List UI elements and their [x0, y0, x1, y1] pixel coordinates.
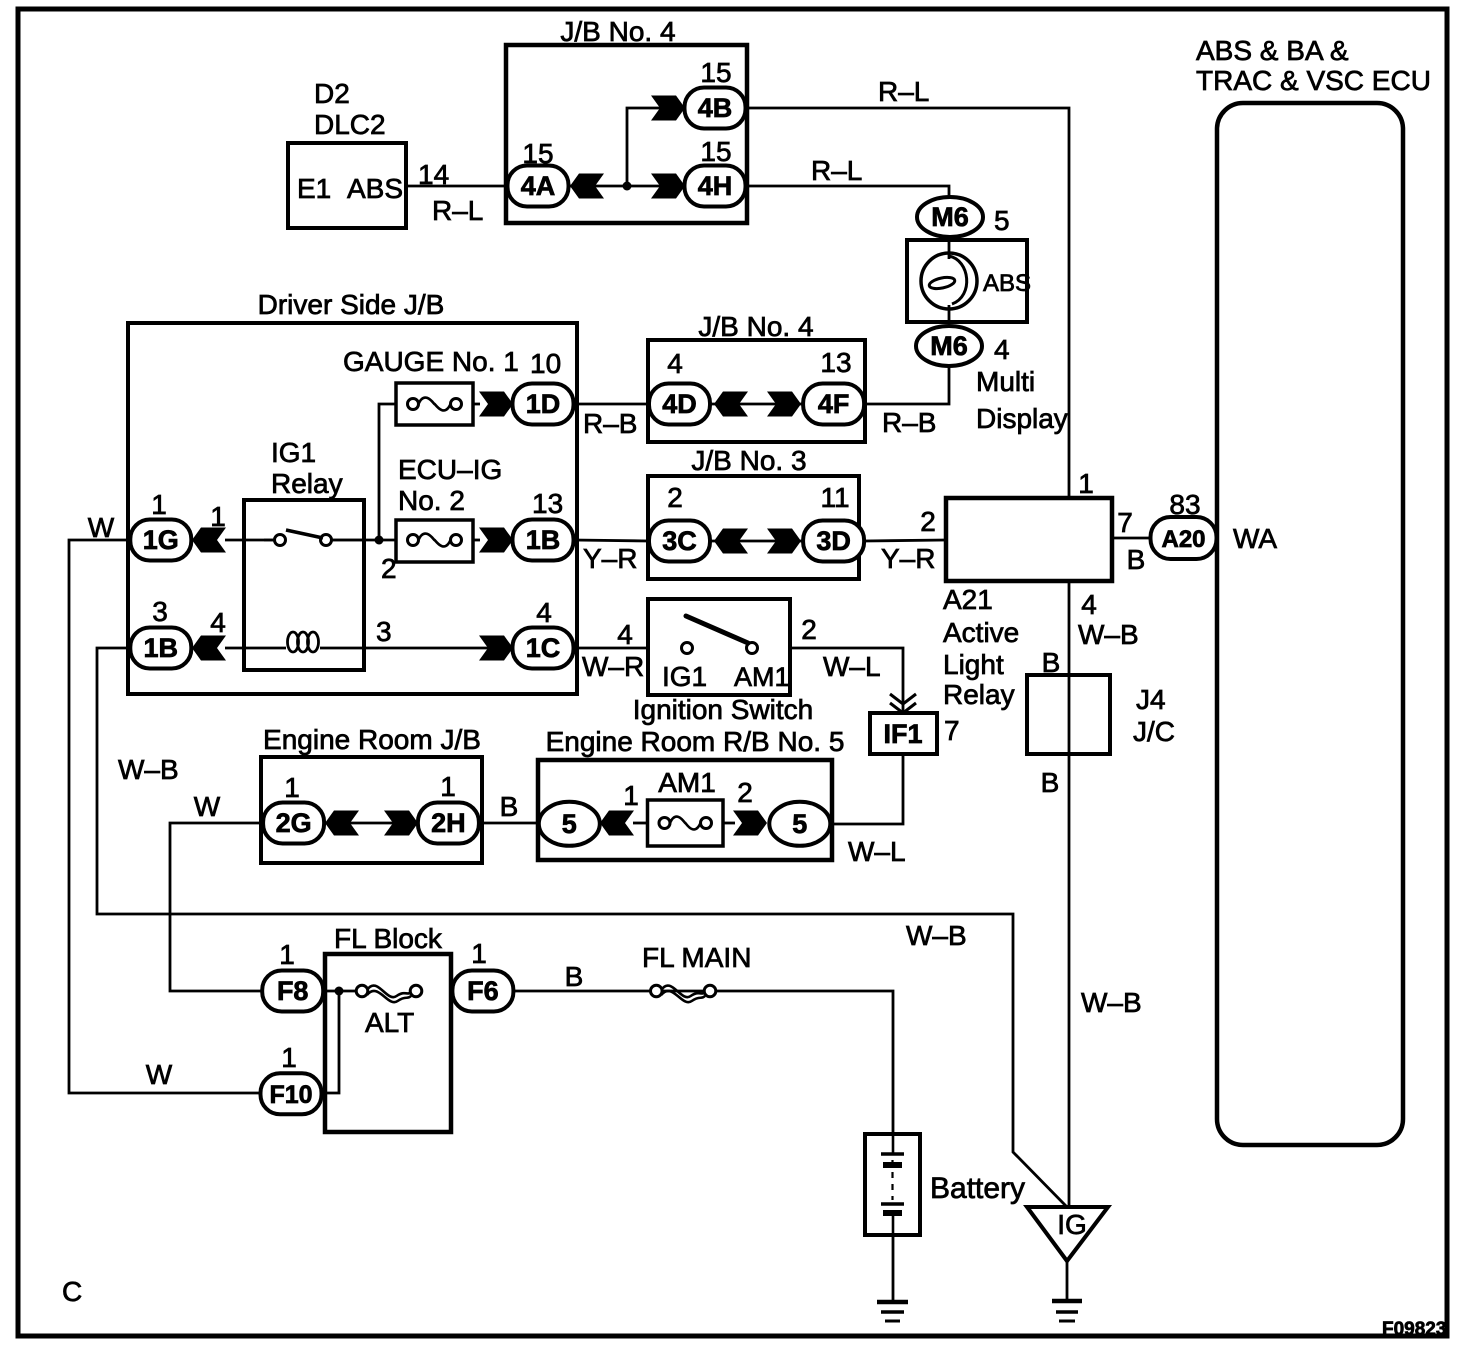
- ground point IG (triangle): [1027, 1207, 1108, 1261]
- wire inside Engine Room R/B No.5: [633, 822, 648, 825]
- svg-text:J/B No. 3: J/B No. 3: [691, 445, 806, 476]
- svg-text:W–B: W–B: [1081, 987, 1142, 1018]
- arrow out of 1G: [192, 528, 226, 553]
- svg-text:W: W: [146, 1059, 173, 1090]
- svg-text:Relay: Relay: [271, 468, 343, 499]
- svg-text:W: W: [88, 512, 115, 543]
- junction block Driver Side J/B: [128, 289, 577, 694]
- svg-text:E1: E1: [297, 173, 331, 204]
- component E1 ABS (DLC2 connector): [288, 143, 406, 228]
- svg-text:IG: IG: [1057, 1209, 1087, 1240]
- svg-text:4: 4: [994, 334, 1010, 365]
- fusible link arrows above IF1: [890, 694, 916, 713]
- connector 2G: [263, 803, 324, 844]
- arrow into 4F: [767, 392, 801, 417]
- svg-text:2: 2: [920, 506, 936, 537]
- svg-text:R–L: R–L: [432, 195, 483, 226]
- wire IF1 to connector 5 (W-L): [830, 754, 903, 824]
- svg-text:1B: 1B: [144, 633, 179, 663]
- connector 5 (right): [769, 802, 830, 846]
- arrow out of 4D: [714, 392, 748, 417]
- svg-text:1: 1: [151, 489, 167, 520]
- svg-text:B: B: [565, 961, 584, 992]
- svg-text:2: 2: [801, 614, 817, 645]
- svg-text:1D: 1D: [526, 389, 561, 419]
- svg-text:15: 15: [700, 136, 731, 167]
- svg-text:3: 3: [376, 616, 392, 647]
- svg-text:A21: A21: [943, 584, 993, 615]
- wire E1 ABS to 4A (R-L): [406, 185, 508, 188]
- svg-text:J/B No. 4: J/B No. 4: [560, 16, 675, 47]
- wire IG triangle to ground: [1066, 1261, 1069, 1301]
- junction block Engine Room J/B: [261, 724, 482, 863]
- svg-text:WA: WA: [1233, 523, 1277, 554]
- svg-text:3C: 3C: [662, 526, 697, 556]
- svg-text:W–B: W–B: [1078, 619, 1139, 650]
- svg-text:Y–R: Y–R: [881, 543, 935, 574]
- junction node 2 in Driver Side J/B: [375, 536, 384, 545]
- connector 3C: [649, 521, 710, 562]
- wire into bulb: [948, 240, 951, 259]
- wire inside FL Block: F10 to F8 junction: [321, 991, 339, 1093]
- wire M6-4 to 4F (R-B): [865, 366, 949, 404]
- svg-text:4: 4: [617, 619, 633, 650]
- svg-text:Battery: Battery: [930, 1172, 1025, 1205]
- junction block J/B No.4 (middle): [648, 311, 865, 442]
- connector 4H: [685, 166, 746, 207]
- svg-text:4B: 4B: [698, 93, 733, 123]
- connector 5 (left): [539, 802, 600, 846]
- connector 4F: [803, 384, 864, 425]
- svg-text:Multi: Multi: [976, 366, 1035, 397]
- svg-text:J/B No. 4: J/B No. 4: [698, 311, 813, 342]
- svg-text:F10: F10: [269, 1081, 312, 1109]
- junction node in FL Block: [335, 987, 344, 996]
- svg-text:AM1: AM1: [734, 662, 790, 692]
- svg-text:4A: 4A: [521, 171, 556, 201]
- svg-text:11: 11: [820, 482, 849, 513]
- relay block Engine Room R/B No.5: [538, 726, 844, 860]
- svg-text:4F: 4F: [818, 389, 850, 419]
- svg-text:J4: J4: [1136, 684, 1166, 715]
- connector F6: [452, 971, 513, 1012]
- svg-text:4: 4: [210, 607, 226, 638]
- wire F6 to battery (B) with FL MAIN: [513, 991, 893, 1134]
- svg-text:1: 1: [440, 771, 456, 802]
- svg-text:D2: D2: [314, 78, 350, 109]
- svg-text:1C: 1C: [526, 633, 561, 663]
- svg-text:GAUGE No. 1: GAUGE No. 1: [343, 346, 519, 377]
- wire inside Driver Side J/B: 1G row to relay and junction: [225, 539, 274, 542]
- fuse GAUGE No.1 label: [343, 346, 519, 377]
- svg-text:W–L: W–L: [848, 836, 906, 867]
- svg-text:4H: 4H: [698, 171, 733, 201]
- junction node in J/B No.4: [623, 182, 632, 191]
- ignition switch contacts and lever: [682, 616, 758, 654]
- svg-text:4: 4: [536, 597, 552, 628]
- svg-text:ALT: ALT: [365, 1007, 414, 1038]
- wire A21 pin4 down through J4 to IG triangle (W-B): [1068, 581, 1071, 1207]
- svg-text:2: 2: [667, 482, 683, 513]
- component Multi Display label: [976, 366, 1068, 434]
- fuse GAUGE No.1: [396, 383, 473, 425]
- connector 2H: [418, 803, 479, 844]
- svg-text:W–B: W–B: [906, 920, 967, 951]
- relay IG1 coil: [288, 632, 319, 652]
- svg-text:Active: Active: [943, 617, 1019, 648]
- svg-text:ABS & BA &: ABS & BA &: [1196, 35, 1349, 66]
- arrow into 2H: [384, 811, 418, 836]
- arrow into 3D: [767, 529, 801, 554]
- fuse ECU-IG No.2 label: [398, 454, 502, 516]
- arrow out of 5 (left): [600, 811, 634, 836]
- svg-text:TRAC & VSC ECU: TRAC & VSC ECU: [1196, 65, 1431, 96]
- svg-text:B: B: [1127, 544, 1146, 575]
- junction connector J4 J/C box: [1027, 675, 1110, 754]
- arrow out of 3C: [714, 529, 748, 554]
- svg-text:2: 2: [737, 777, 753, 808]
- svg-text:IF1: IF1: [883, 719, 922, 749]
- svg-text:ECU–IG: ECU–IG: [398, 454, 502, 485]
- svg-text:1G: 1G: [143, 525, 179, 555]
- svg-text:1: 1: [281, 1042, 297, 1073]
- wire between 4D and 4F: [711, 403, 802, 406]
- svg-text:Engine Room R/B No. 5: Engine Room R/B No. 5: [546, 726, 845, 757]
- wire A21 pin7 to A20 (B): [1112, 537, 1151, 540]
- connector 3D: [803, 521, 864, 562]
- connector 1B (row3): [130, 628, 191, 669]
- svg-text:3: 3: [152, 596, 168, 627]
- svg-text:C: C: [62, 1276, 82, 1307]
- svg-text:FL Block: FL Block: [334, 923, 443, 954]
- svg-text:F6: F6: [467, 976, 499, 1006]
- arrow into 1D: [479, 392, 513, 417]
- svg-text:IG1: IG1: [662, 661, 707, 692]
- svg-text:1: 1: [279, 939, 295, 970]
- svg-text:J/C: J/C: [1133, 716, 1175, 747]
- svg-text:W–L: W–L: [823, 651, 881, 682]
- wire 2G to F8 (W): [170, 823, 264, 991]
- svg-text:14: 14: [418, 159, 449, 190]
- connector F8: [262, 971, 323, 1012]
- wire inside Driver Side J/B: relay coil row to 1C: [225, 647, 286, 650]
- svg-text:W: W: [194, 791, 221, 822]
- svg-text:IG1: IG1: [271, 437, 316, 468]
- svg-text:10: 10: [530, 348, 561, 379]
- svg-text:F09823: F09823: [1382, 1319, 1446, 1340]
- connector 4D: [649, 384, 710, 425]
- wire battery to ground: [892, 1235, 895, 1302]
- svg-text:ABS: ABS: [347, 173, 403, 204]
- svg-text:5: 5: [792, 809, 807, 839]
- fusible link IF1: [870, 713, 937, 754]
- svg-text:R–B: R–B: [583, 408, 637, 439]
- connector M6 (pin 4): [916, 326, 982, 366]
- junction block J/B No.3: [648, 445, 859, 579]
- connector 1D: [513, 384, 574, 425]
- wire inside Driver Side J/B: fuse outputs to 1D and 1B: [473, 403, 480, 406]
- fuse block FL Block: [325, 923, 451, 1132]
- wire 2H to 5 (B): [478, 822, 539, 825]
- bulb ABS warning lamp: [921, 253, 977, 309]
- fuse ECU-IG No.2: [396, 520, 473, 562]
- svg-text:R–L: R–L: [878, 76, 929, 107]
- wire inside J/B No.4: 4A to 4B and 4H: [569, 185, 684, 188]
- switch Ignition Switch box: [648, 599, 790, 695]
- svg-text:M6: M6: [931, 202, 969, 232]
- svg-text:FL MAIN: FL MAIN: [642, 942, 751, 973]
- svg-text:AM1: AM1: [658, 767, 716, 798]
- svg-text:DLC2: DLC2: [314, 109, 386, 140]
- svg-text:15: 15: [700, 57, 731, 88]
- label J4 J/C: [1133, 684, 1175, 747]
- arrow out of 1B (row3): [192, 636, 226, 661]
- ABS warning lamp box: [907, 240, 1027, 322]
- connector 1B (row2): [513, 520, 574, 561]
- svg-text:4: 4: [1081, 589, 1097, 620]
- svg-text:13: 13: [532, 488, 563, 519]
- svg-text:ABS: ABS: [983, 270, 1031, 297]
- wire 1C to ignition switch IG1 (W-R): [573, 647, 648, 650]
- fuse AM1: [648, 800, 724, 846]
- svg-text:Driver Side J/B: Driver Side J/B: [258, 289, 445, 320]
- svg-text:83: 83: [1169, 489, 1200, 520]
- battery: [865, 1134, 920, 1235]
- arrow into 4H: [651, 174, 685, 199]
- svg-text:Y–R: Y–R: [583, 543, 637, 574]
- wire ignition switch AM1 pin2 to IF1 (W-L): [790, 648, 903, 713]
- svg-text:M6: M6: [930, 331, 968, 361]
- wire 1G to F10 (W): [69, 540, 261, 1093]
- svg-text:7: 7: [1117, 507, 1133, 538]
- svg-text:4: 4: [667, 348, 683, 379]
- ground (battery): [877, 1302, 908, 1321]
- svg-text:R–B: R–B: [882, 407, 936, 438]
- component D2 DLC2 label: [314, 78, 386, 140]
- ground (IG): [1052, 1301, 1082, 1321]
- svg-text:No. 2: No. 2: [398, 485, 465, 516]
- svg-text:1: 1: [471, 938, 487, 969]
- arrow into 1C: [479, 636, 513, 661]
- svg-text:5: 5: [562, 809, 577, 839]
- wire 1B to 3C (Y-R): [573, 540, 649, 541]
- svg-text:7: 7: [944, 715, 960, 746]
- svg-text:2G: 2G: [276, 808, 312, 838]
- connector F10: [261, 1073, 322, 1114]
- connector 1G: [130, 520, 191, 561]
- arrow into 4A: [570, 174, 604, 199]
- svg-text:Light: Light: [943, 649, 1004, 680]
- connector 4B: [685, 88, 746, 129]
- relay A21 Active Light Relay box: [946, 498, 1112, 581]
- arrow into 5 (right): [733, 811, 767, 836]
- connector 4A: [508, 166, 569, 207]
- svg-text:Engine Room J/B: Engine Room J/B: [263, 724, 481, 755]
- relay A21 label: [943, 584, 1019, 710]
- svg-text:13: 13: [820, 347, 851, 378]
- arrow into 4B: [651, 96, 685, 121]
- svg-text:1: 1: [210, 501, 226, 532]
- wire between 2G and 2H: [325, 822, 418, 825]
- svg-text:2: 2: [381, 553, 397, 584]
- relay IG1 box: [244, 500, 364, 670]
- svg-text:B: B: [500, 791, 519, 822]
- arrow out of 2G: [325, 811, 359, 836]
- junction block J/B No.4 (top): [506, 16, 747, 223]
- svg-text:R–L: R–L: [811, 155, 862, 186]
- ECU ABS & BA & TRAC & VSC ECU label: [1196, 35, 1431, 96]
- wire 4B to A21 pin1 (R-L): [746, 108, 1069, 498]
- svg-text:1: 1: [1078, 468, 1094, 499]
- wire 3D to A21 pin2 (Y-R): [864, 540, 946, 541]
- svg-text:F8: F8: [277, 976, 309, 1006]
- wire 4H to M6 (R-L): [746, 186, 949, 198]
- svg-text:B: B: [1041, 767, 1060, 798]
- svg-text:Ignition Switch: Ignition Switch: [633, 694, 814, 725]
- svg-text:1B: 1B: [526, 525, 561, 555]
- wire 1B to IG triangle (W-B): [97, 648, 1066, 1206]
- arrow into 1B: [479, 528, 513, 553]
- svg-text:1: 1: [284, 772, 300, 803]
- wire between 3C and 3D: [711, 540, 802, 543]
- svg-text:W–R: W–R: [582, 651, 644, 682]
- connector 1C: [513, 628, 574, 669]
- svg-text:A20: A20: [1161, 526, 1205, 553]
- svg-text:15: 15: [522, 138, 553, 169]
- wire 1D to 4D (R-B): [573, 403, 649, 406]
- svg-text:W–B: W–B: [118, 754, 179, 785]
- relay IG1 label: [271, 437, 343, 499]
- svg-text:Display: Display: [976, 403, 1068, 434]
- connector A20: [1151, 517, 1217, 559]
- svg-text:Relay: Relay: [943, 679, 1015, 710]
- fusible link FL MAIN: [651, 985, 716, 1002]
- svg-text:B: B: [1042, 647, 1061, 678]
- svg-text:4D: 4D: [662, 389, 697, 419]
- svg-text:5: 5: [994, 205, 1010, 236]
- connector M6 (pin 5): [917, 197, 983, 237]
- relay IG1 switch contacts: [264, 530, 364, 546]
- svg-text:1: 1: [623, 780, 639, 811]
- svg-text:2H: 2H: [431, 808, 466, 838]
- ECU body outline: [1217, 103, 1403, 1145]
- fusible link ALT: [356, 985, 422, 1002]
- svg-text:3D: 3D: [816, 526, 851, 556]
